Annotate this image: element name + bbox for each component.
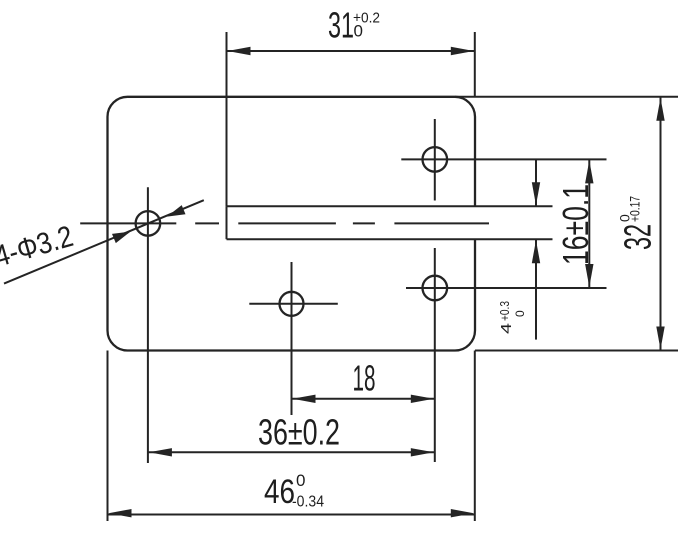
svg-text:0: 0 xyxy=(354,22,363,41)
svg-text:+0.3: +0.3 xyxy=(497,301,512,321)
svg-text:16±0.1: 16±0.1 xyxy=(555,184,596,265)
svg-text:36±0.2: 36±0.2 xyxy=(258,411,340,452)
svg-text:+0.17: +0.17 xyxy=(627,196,643,222)
svg-text:18: 18 xyxy=(353,358,376,399)
svg-text:32: 32 xyxy=(618,224,660,250)
svg-text:0: 0 xyxy=(296,471,305,490)
svg-text:0: 0 xyxy=(513,310,527,317)
svg-text:4: 4 xyxy=(498,323,515,334)
svg-text:46: 46 xyxy=(264,473,295,511)
svg-text:-0.34: -0.34 xyxy=(292,494,324,511)
svg-text:31: 31 xyxy=(328,5,354,46)
